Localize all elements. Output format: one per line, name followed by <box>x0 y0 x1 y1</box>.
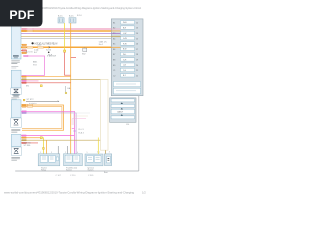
svg-text:CAN-H: CAN-H <box>117 110 124 113</box>
arrow line to starter <box>26 101 59 106</box>
wire red vertical (below inline connector) <box>65 52 71 75</box>
wire tan from strip B to junction box <box>21 78 101 80</box>
inline connector on yellow wire <box>64 50 66 52</box>
svg-text:Batt: Batt <box>104 171 108 174</box>
ignition switch icon box (tan box 2) <box>11 88 22 99</box>
relay icon box (tan box 4) <box>11 147 21 155</box>
wire red stub at orange vertical <box>71 56 76 58</box>
svg-text:ST REL: ST REL <box>24 145 32 147</box>
svg-text:S210: S210 <box>46 49 52 51</box>
splice stubs on pink/purple verticals <box>72 129 85 135</box>
junction block (tall cream box) <box>101 80 109 151</box>
fuse F1 on orange band 2 <box>49 46 87 55</box>
connector strip B (left module, second) <box>11 70 21 88</box>
svg-text:Relay: Relay <box>41 169 46 171</box>
starter box B1 <box>38 154 60 166</box>
starter relay icon box (tan box 3) <box>11 118 22 127</box>
legend bottom row marks <box>116 84 136 91</box>
svg-text:C2: C2 <box>113 75 115 77</box>
svg-text:5: 5 <box>87 152 88 154</box>
svg-text:A 1C: A 1C <box>58 15 63 18</box>
svg-text:B6: B6 <box>113 49 115 51</box>
text below icon box C <box>11 157 20 160</box>
wire pink long (turns down) <box>21 111 74 154</box>
connector strip C (left module, third) <box>11 100 21 118</box>
inline connector on orange wire <box>40 137 42 139</box>
svg-text:Switch: Switch <box>66 168 72 171</box>
starter box B4 <box>104 154 111 166</box>
strip A pin labels <box>22 28 26 32</box>
wire orange band 2 <box>21 44 111 49</box>
svg-text:R-W: R-W <box>123 43 127 45</box>
svg-text:www-scribd-com/document/431906: www-scribd-com/document/431906512/2010-T… <box>4 191 135 195</box>
page background <box>0 0 149 198</box>
svg-text:15: 15 <box>136 38 138 40</box>
svg-text:20: 20 <box>136 65 138 67</box>
svg-text:17: 17 <box>136 49 138 51</box>
svg-text:R-B 4: R-B 4 <box>79 133 85 135</box>
wire grey drop to B2 left <box>67 146 69 154</box>
legend row inner marks <box>123 22 127 77</box>
connector strip D (left module, fourth) <box>11 134 21 146</box>
legend wire stubs <box>111 29 120 47</box>
svg-text:A21 IG: A21 IG <box>26 51 33 54</box>
nested module corners (PCM area) <box>72 113 90 125</box>
svg-text:PDF: PDF <box>9 8 34 22</box>
diagram frame: right border <box>138 96 140 171</box>
connector strip A (left module, top) <box>11 25 21 59</box>
svg-text:C1: C1 <box>113 70 115 72</box>
svg-text:12: 12 <box>136 22 138 24</box>
inline connector on red wire <box>40 85 42 87</box>
svg-text:Switch: Switch <box>88 168 94 171</box>
svg-text:C 210: C 210 <box>70 175 76 177</box>
svg-text:21: 21 <box>136 70 138 72</box>
splice marks mid page <box>26 86 71 94</box>
svg-text:C 107: C 107 <box>56 175 62 177</box>
pin labels above bottom boxes <box>40 152 100 154</box>
legend rows <box>121 21 135 77</box>
svg-text:L-W: L-W <box>123 33 127 35</box>
svg-text:22: 22 <box>136 75 138 77</box>
detail box rows <box>111 99 134 119</box>
strip A stub pins <box>21 44 27 54</box>
wire pink short from strip B <box>21 80 39 82</box>
pink highlight rectangle outline <box>22 56 45 75</box>
svg-text:B8: B8 <box>113 60 115 62</box>
svg-text:B-W: B-W <box>123 49 127 51</box>
svg-text:7: 7 <box>99 152 100 154</box>
wire orange from strip B <box>21 76 71 78</box>
svg-text:B4: B4 <box>113 38 115 40</box>
detail box arrow marks <box>121 102 123 115</box>
svg-text:R-L 3: R-L 3 <box>79 129 85 131</box>
wire pink from strip D joins pink vertical <box>21 135 74 137</box>
B3 wire yellow drop <box>97 138 99 155</box>
wire grey <box>21 38 111 40</box>
svg-text:ST ST2: ST ST2 <box>27 99 35 101</box>
splice label S1 <box>46 49 53 56</box>
connector detail box (below legend) <box>110 98 136 122</box>
wire orange vertical (long) <box>70 23 72 154</box>
wire orange drop to B1 <box>45 140 47 154</box>
connector C1 (top small) <box>58 18 64 23</box>
svg-text:B7: B7 <box>113 54 115 56</box>
svg-text:G-W: G-W <box>123 38 127 40</box>
wire red from strip B <box>21 82 71 84</box>
wire orange band 1 <box>21 30 111 32</box>
splice note bullet and line <box>31 42 57 45</box>
wire orange U outer <box>21 105 64 130</box>
wire orange U inner <box>21 107 62 129</box>
svg-text:6 (B) B-R: 6 (B) B-R <box>47 56 57 58</box>
strip C pin labels <box>22 104 26 113</box>
text below icon box B <box>11 129 20 132</box>
wire pink band <box>21 28 111 30</box>
svg-text:B9: B9 <box>113 65 115 67</box>
wire grey drop to B1 right <box>57 146 59 154</box>
svg-text:16: 16 <box>136 44 138 46</box>
svg-text:W-L: W-L <box>123 54 126 56</box>
wire yellow down to starter box <box>42 138 43 154</box>
starter box B3 <box>85 154 103 166</box>
strip D pin labels <box>22 135 26 141</box>
svg-text:13: 13 <box>136 28 138 30</box>
wire purple long (turns down) <box>21 113 76 154</box>
svg-text:B5: B5 <box>113 44 115 46</box>
text below strip A <box>11 61 19 68</box>
svg-text:18: 18 <box>136 54 138 56</box>
wire orange from strip D <box>21 137 40 139</box>
svg-text:B 14: B 14 <box>77 15 82 17</box>
legend row texts <box>113 22 138 77</box>
diagram frame: bottom border <box>15 170 139 172</box>
svg-text:19: 19 <box>136 60 138 62</box>
inline connector 2 on yellow drop <box>43 148 45 150</box>
svg-text:C 305: C 305 <box>88 175 94 177</box>
legend bottom wide rows <box>114 82 141 94</box>
svg-text:A 2C: A 2C <box>69 15 74 18</box>
wire yellow vertical <box>64 23 66 50</box>
PDF badge <box>0 0 43 27</box>
connector C2 (top small) <box>69 15 76 24</box>
tan wire from junction block down to B4 <box>104 150 106 154</box>
inline connector on strip C edge <box>23 99 25 101</box>
strip B pin labels <box>22 76 26 84</box>
data legend box (right tall) <box>111 19 143 96</box>
svg-text:1/2: 1/2 <box>142 191 146 195</box>
wire tan from strip D to junction box <box>21 139 101 141</box>
svg-text:B1: B1 <box>113 22 115 24</box>
wire tan <box>21 35 111 37</box>
wire purple <box>21 33 111 35</box>
starter box B2 <box>64 154 83 166</box>
wire red short from strip D <box>21 142 38 144</box>
svg-text:14: 14 <box>136 33 138 35</box>
